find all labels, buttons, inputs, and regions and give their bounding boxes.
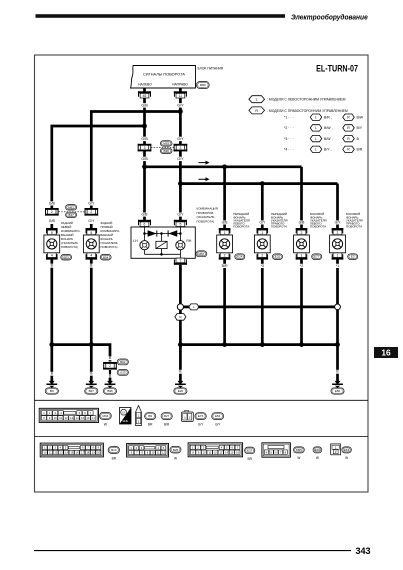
legend *4 L (310, 146, 322, 152)
meter node 1 (143, 232, 146, 235)
svg-text:1: 1 (337, 254, 339, 258)
svg-text:2: 2 (224, 254, 226, 258)
svg-text:11: 11 (179, 94, 183, 98)
connector M59 (196, 82, 209, 89)
wire branch G/Y to rear right (91, 112, 180, 209)
svg-text:3: 3 (179, 146, 181, 150)
svg-text:E50: E50 (335, 389, 341, 393)
svg-text:L: L (256, 98, 258, 102)
combination meter box (131, 227, 195, 258)
connector M63 (160, 141, 172, 146)
meter pin 5 (174, 220, 187, 227)
ground B27 (86, 378, 97, 388)
lamp pin 1 (257, 228, 269, 235)
svg-text:E3: E3 (351, 255, 355, 259)
svg-text:*4 · · ·: *4 · · · (284, 148, 294, 152)
marker R (175, 314, 186, 321)
svg-text:E76: E76 (198, 414, 204, 418)
label B/R (221, 264, 229, 268)
label B (90, 264, 94, 268)
wire LHD ground branch (183, 306, 337, 309)
connector B53 (61, 254, 72, 260)
label B (90, 372, 93, 376)
label B (50, 372, 53, 376)
wire to body ground (336, 345, 339, 378)
connector E76 face (195, 413, 206, 420)
lamp ground wire (336, 260, 339, 345)
svg-text:B/R: B/R (222, 264, 228, 268)
lamp ground wire (300, 260, 303, 345)
connector B54 (100, 254, 111, 260)
svg-text:BR: BR (247, 457, 252, 461)
ground connector E26 (174, 388, 187, 394)
svg-text:2: 2 (109, 364, 111, 368)
label G/B above connector (140, 137, 148, 141)
junction G/Y (178, 109, 183, 114)
ground bus right (180, 343, 337, 346)
svg-text:7: 7 (179, 259, 181, 263)
svg-text:5: 5 (90, 231, 92, 235)
svg-text:M57: M57 (198, 252, 204, 256)
ground bus left (52, 345, 110, 362)
svg-text:B38: B38 (164, 149, 170, 153)
rear lamp pin 5 (86, 228, 98, 235)
footer rule (34, 550, 351, 552)
svg-text:: МОДЕЛИ С ПРАВОСТОРОННИМ УПРА: : МОДЕЛИ С ПРАВОСТОРОННИМ УПРАВЛЕНИЕМ (267, 109, 348, 113)
svg-text:B/R: B/R (164, 422, 170, 426)
legend *2 (284, 126, 294, 130)
dashed link center pair (151, 147, 174, 149)
ground connector B27 (85, 388, 98, 394)
diode left (148, 230, 157, 237)
svg-text:L: L (315, 115, 317, 119)
svg-text:*2 · · ·: *2 · · · (284, 126, 294, 130)
svg-text:2: 2 (301, 231, 303, 235)
label G/Y above connector (176, 137, 184, 141)
connector pair on G/Y (174, 144, 188, 152)
legend *3 (284, 137, 294, 141)
lamp pin 2 (219, 253, 231, 260)
wire to front right lamp (261, 184, 264, 230)
svg-text:5: 5 (179, 223, 181, 227)
svg-text:E24: E24 (237, 255, 243, 259)
2-pin vertical connector (136, 406, 142, 426)
connector face B25 grid (127, 443, 169, 457)
svg-text:G/Y: G/Y (335, 220, 342, 224)
svg-text:2: 2 (90, 210, 92, 214)
ground B9 (46, 378, 57, 388)
legend *2 R (343, 125, 355, 131)
svg-text:G/B: G/B (141, 157, 148, 161)
svg-text:B62: B62 (120, 360, 126, 364)
svg-text:H.S.: H.S. (123, 419, 129, 423)
lamp ground wire (223, 260, 226, 345)
dashed link rear pair (59, 211, 85, 213)
turn lamp E77 (294, 235, 310, 253)
svg-text:G/Y: G/Y (259, 220, 266, 224)
svg-text:БОКОВОЙФОНАРЬУКАЗАТЕЛЯПРАВОГОП: БОКОВОЙФОНАРЬУКАЗАТЕЛЯПРАВОГОПОВОРОТА (346, 212, 363, 228)
wire to side left lamp (300, 167, 303, 230)
connector E54 face (212, 413, 224, 420)
ground B96 (105, 378, 116, 388)
turn lamp E3 (330, 235, 346, 253)
svg-text:W: W (174, 456, 177, 460)
svg-text:ПЕРЕДНИЙФОНАРЬУКАЗАТЕЛЯЛЕВОГОП: ПЕРЕДНИЙФОНАРЬУКАЗАТЕЛЯЛЕВОГОПОВОРОТА (233, 212, 250, 228)
legend *1 L (310, 114, 322, 120)
svg-text:G/B: G/B (141, 212, 148, 216)
svg-text:45: 45 (143, 94, 147, 98)
label G/B lamp col (298, 220, 306, 224)
ground connector B9 (45, 388, 58, 394)
svg-text:G/Y: G/Y (177, 212, 184, 216)
label G/B lamp col (221, 220, 229, 224)
label *3 (260, 264, 266, 268)
wire RHD ground (179, 310, 182, 345)
svg-text:M55: M55 (296, 448, 302, 452)
lamp LH (133, 239, 149, 250)
svg-text:RH: RH (186, 239, 191, 243)
label G/Y lamp col (334, 220, 342, 224)
junction G/B (142, 124, 147, 129)
lamp pin 2 (332, 228, 344, 235)
svg-text:5: 5 (51, 231, 53, 235)
svg-text:B: B (109, 374, 111, 378)
svg-text:W: W (297, 456, 300, 460)
connector E46 (313, 447, 322, 453)
legend R (249, 107, 265, 114)
wire branch G/B to rear left (52, 126, 145, 209)
connector B9 face (145, 413, 156, 420)
svg-text:W: W (345, 456, 348, 460)
svg-text:B27: B27 (89, 389, 95, 393)
svg-text:E26: E26 (178, 389, 184, 393)
wire into rear lamp (50, 224, 53, 230)
connector E32 (273, 254, 283, 260)
wire G/B main (143, 88, 146, 221)
label G/B rear (48, 201, 56, 205)
band separator 1 (35, 399, 369, 401)
svg-text:B53: B53 (64, 255, 70, 259)
2-pin horizontal connector (181, 410, 193, 421)
connector E77 (312, 254, 322, 260)
label *4 (178, 267, 184, 271)
label G/B below connector (140, 157, 148, 161)
svg-text:*1 · · ·: *1 · · · (284, 116, 294, 120)
svg-text:1: 1 (224, 231, 226, 235)
rear lamp B53 (44, 235, 60, 253)
svg-text:2: 2 (337, 231, 339, 235)
lamp pin 1 (219, 228, 231, 235)
connector E37 (245, 447, 255, 454)
legend *1 R (343, 114, 355, 120)
junction bus3 XB (89, 342, 94, 347)
ground wire rear lamp (50, 260, 53, 345)
svg-text:2: 2 (51, 210, 53, 214)
svg-text:G/Y: G/Y (198, 422, 204, 426)
svg-text:B25: B25 (173, 448, 179, 452)
svg-text:*1: *1 (336, 264, 339, 268)
page frame (35, 55, 369, 492)
junction bus2 at G/Y (178, 181, 183, 186)
svg-text:343: 343 (356, 546, 371, 556)
svg-text:B9: B9 (148, 414, 152, 418)
svg-text:БЛОК ПИТАНИЯ: БЛОК ПИТАНИЯ (198, 67, 224, 71)
meter internal wiring (145, 227, 181, 258)
svg-text:G/B: G/B (49, 219, 56, 223)
lamp pin 2 (257, 253, 269, 260)
connector B38 (160, 148, 172, 153)
svg-text:BR: BR (148, 422, 153, 426)
legend *4 (284, 148, 294, 152)
lamp pin 1 (332, 253, 344, 260)
rear lamp pin 4 (86, 253, 98, 260)
svg-text:L: L (315, 137, 317, 141)
svg-text:*2: *2 (300, 264, 303, 268)
lamp pin 2 (296, 228, 308, 235)
svg-text:2: 2 (261, 254, 263, 258)
pin 45 (138, 91, 151, 98)
rear lamp B54 (83, 235, 99, 253)
svg-text:B/W ,: B/W , (324, 126, 333, 130)
svg-text:M59: M59 (200, 83, 206, 87)
svg-text:U30: U30 (120, 370, 126, 374)
legend *1 (284, 116, 294, 120)
svg-text:E63: E63 (344, 448, 350, 452)
svg-text:СИГНАЛЫ ПОВОРОТА: СИГНАЛЫ ПОВОРОТА (143, 71, 185, 76)
wire G/Y main (179, 88, 182, 221)
label B (336, 370, 339, 374)
legend *2 L (310, 125, 322, 131)
ground connector E50 (331, 388, 344, 394)
connector U30 (117, 370, 128, 376)
svg-text:16: 16 (381, 348, 391, 358)
svg-text:B/Y ,: B/Y , (324, 148, 332, 152)
svg-text:G/B: G/B (141, 103, 148, 107)
turn lamp E24 (217, 235, 233, 253)
svg-text:B/Y: B/Y (357, 126, 363, 130)
diode right (168, 230, 177, 237)
label B (50, 264, 54, 268)
svg-text:B54: B54 (103, 255, 109, 259)
connector E63 (342, 447, 352, 453)
connector face M55 grid (262, 443, 291, 457)
junction bus3 (335, 342, 340, 347)
connector E3 (348, 254, 358, 260)
junction bus3 (222, 342, 227, 347)
section tab 16 (374, 347, 398, 358)
svg-text:B/R: B/R (357, 148, 363, 152)
H.S. view icon (120, 408, 132, 425)
svg-text:G/Y: G/Y (88, 201, 95, 205)
marker L (189, 304, 199, 310)
splice circle right (335, 304, 341, 310)
meter pin 6 (138, 220, 151, 227)
junction bus2 col2 (260, 181, 265, 186)
ground branch connector (103, 362, 117, 370)
meter node 3 (179, 232, 182, 235)
svg-text:*3 · · ·: *3 · · · (284, 137, 294, 141)
label *2 (299, 264, 305, 268)
label B small (109, 374, 112, 378)
resistor (156, 241, 167, 248)
label *1 (335, 264, 341, 268)
svg-text:E46: E46 (315, 448, 321, 452)
svg-text:G/B: G/B (299, 220, 306, 224)
svg-text:EL-TURN-07: EL-TURN-07 (316, 64, 358, 74)
connector M57 (196, 251, 207, 257)
connector face E37 grid (188, 443, 243, 457)
connector B62 (117, 359, 128, 365)
svg-text:Электрооборудование: Электрооборудование (291, 13, 368, 22)
bus G/B left-turn feed (145, 165, 302, 168)
connector M62 (66, 205, 77, 210)
svg-text:6: 6 (144, 223, 146, 227)
pin 11 (174, 91, 187, 98)
label G/Y below connector (176, 157, 184, 161)
ground wire rear lamp (90, 260, 93, 345)
svg-text:L: L (315, 126, 317, 130)
svg-text:1: 1 (301, 254, 303, 258)
svg-text:B37: B37 (68, 213, 74, 217)
svg-text:НАПРАВО: НАПРАВО (172, 83, 188, 87)
connector face B10 grid (40, 443, 103, 457)
svg-text:G/B: G/B (222, 220, 229, 224)
rear connector pair G/B (45, 208, 59, 216)
rear lamp pin 5 (46, 228, 58, 235)
ground E50 (332, 378, 343, 388)
legend *3 L (310, 135, 322, 141)
svg-text:.: . (209, 416, 210, 420)
legend *3 R (343, 135, 355, 141)
junction bus3 (299, 342, 304, 347)
svg-text:G/B: G/B (141, 137, 148, 141)
connector face M34 grid (39, 408, 98, 422)
connector B10 (108, 447, 119, 454)
connector E24 (235, 254, 245, 260)
bus G/Y right-turn feed (180, 182, 337, 185)
lamp pin 1 (296, 253, 308, 260)
label G/Y (176, 103, 184, 107)
ground E26 (175, 378, 186, 388)
flow arrow bus2 (199, 177, 210, 181)
meter node 2 (160, 232, 163, 235)
svg-text:M62: M62 (68, 205, 74, 209)
svg-text:GY: GY (122, 411, 126, 414)
svg-text:M63: M63 (163, 141, 169, 145)
svg-text:1: 1 (261, 231, 263, 235)
junction bus3 (260, 342, 265, 347)
svg-text:B/R ,: B/R , (324, 116, 332, 120)
svg-text:B10: B10 (111, 448, 117, 452)
splice circle (177, 304, 183, 310)
label G/B meter (141, 212, 149, 216)
wire meter ground (179, 265, 182, 304)
connector B37 (66, 212, 77, 217)
label G/B rear low (48, 219, 56, 223)
legend *4 R (343, 146, 355, 152)
small 2-cell connector E63 (331, 444, 341, 455)
label G/Y rear (87, 201, 95, 205)
band separator 2 (35, 436, 369, 438)
svg-text:ПЕРЕДНИЙФОНАРЬУКАЗАТЕЛЯПРАВОГО: ПЕРЕДНИЙФОНАРЬУКАЗАТЕЛЯПРАВОГОПОВОРОТА (271, 212, 288, 228)
svg-text:E37: E37 (247, 448, 253, 452)
lamp ground wire (261, 260, 264, 345)
svg-text:B/W ,: B/W , (324, 137, 333, 141)
junction bus1 col1 (222, 164, 227, 169)
junction bus3 XA (49, 342, 54, 347)
turn signal source box (131, 66, 196, 89)
junction bus3 (178, 342, 183, 347)
svg-text:W: W (316, 456, 319, 460)
svg-text:G/Y: G/Y (177, 103, 184, 107)
connector M34 (100, 412, 112, 419)
svg-text:БОКОВОЙФОНАРЬУКАЗАТЕЛЯЛЕВОГОПО: БОКОВОЙФОНАРЬУКАЗАТЕЛЯЛЕВОГОПОВОРОТА (310, 212, 327, 228)
turn lamp E32 (254, 235, 270, 253)
svg-text:G/Y: G/Y (88, 219, 95, 223)
wire into rear lamp (90, 224, 93, 230)
wire to body ground (179, 345, 182, 378)
connector M55 (294, 447, 305, 453)
svg-text:G/Y: G/Y (215, 422, 221, 426)
junction bus1 at G/B (142, 164, 147, 169)
svg-text:E32: E32 (275, 255, 281, 259)
connector pair on G/B (138, 144, 152, 152)
svg-text:G/Y: G/Y (177, 157, 184, 161)
label G/Y meter (177, 212, 185, 216)
svg-text:B/W: B/W (357, 116, 364, 120)
label G/Y rear low (87, 219, 95, 223)
svg-text:LH: LH (133, 239, 138, 243)
svg-text:*3: *3 (261, 264, 264, 268)
svg-text:: МОДЕЛИ С ЛЕВОСТОРОННИМ УПРАВ: : МОДЕЛИ С ЛЕВОСТОРОННИМ УПРАВЛЕНИЕМ (267, 98, 346, 102)
svg-text:E77: E77 (314, 255, 320, 259)
label G/Y lamp col (259, 220, 267, 224)
svg-text:G/Y: G/Y (177, 137, 184, 141)
label B (179, 370, 182, 374)
svg-text:.: . (159, 416, 160, 420)
connector B25 (170, 446, 181, 453)
svg-text:4: 4 (51, 254, 53, 258)
svg-text:E54: E54 (215, 414, 221, 418)
label B branch (108, 356, 111, 360)
svg-text:B96: B96 (107, 389, 113, 393)
label G/B (140, 103, 148, 107)
svg-text:4: 4 (90, 254, 92, 258)
connector B27 face (161, 413, 172, 420)
wire to side right lamp (336, 184, 339, 230)
svg-text:L: L (315, 148, 317, 152)
svg-text:B27: B27 (164, 414, 170, 418)
meter node 4 (160, 253, 163, 256)
flow arrow bus1 (199, 161, 210, 165)
svg-text:M34: M34 (102, 414, 108, 418)
svg-text:НАЛЕВО: НАЛЕВО (138, 83, 152, 87)
lamp RH (176, 239, 192, 250)
meter pin 7 (174, 258, 187, 265)
svg-text:BR: BR (112, 457, 117, 461)
rear lamp pin 4 (46, 253, 58, 260)
wire to body ground (90, 345, 93, 378)
legend L (249, 96, 265, 103)
svg-text:3: 3 (144, 146, 146, 150)
svg-text:B9: B9 (50, 389, 54, 393)
rear connector pair G/Y (85, 208, 99, 216)
wire to ground B96 (109, 370, 111, 378)
header bar (36, 14, 286, 18)
svg-text:R: R (255, 109, 258, 113)
svg-text:G/B: G/B (49, 201, 56, 205)
wire to body ground (50, 345, 53, 378)
